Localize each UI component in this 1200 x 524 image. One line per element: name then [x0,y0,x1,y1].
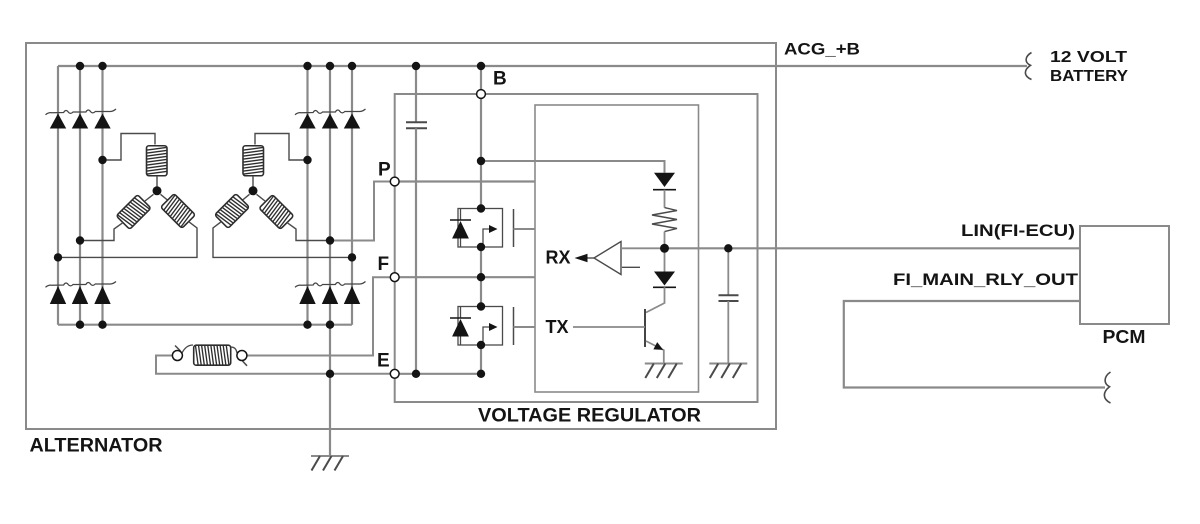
wire between Q1 and Q2 [480,247,482,307]
slip ring left [172,351,182,361]
transistor Q3 (TX driver) [573,309,665,363]
svg-text:ALTERNATOR: ALTERNATOR [30,436,163,457]
label RX [546,248,571,268]
diode D10 (bridge2 lower) [299,286,315,304]
diode D5 (bridge1 lower) [72,286,88,304]
brush tick right [243,361,248,366]
squiggle relay wire end [1104,372,1110,403]
terminal P [390,177,399,186]
transistor Q2 field MOSFET [450,307,535,346]
wire LIN to PCM [665,247,1081,249]
resistor R1 [652,208,677,232]
node wye2 neutral [249,186,258,195]
field coil exit arc [231,347,237,353]
node wye1 phase B junction [76,236,84,244]
svg-text:LIN(FI-ECU): LIN(FI-ECU) [961,221,1075,240]
diode D1 (bridge1 upper) [50,114,66,129]
ground Q3 emitter [645,364,683,379]
node E rail end [477,370,485,378]
wire U1 to RX arrow [588,257,595,259]
node B branch junction [477,157,485,165]
wire LIN node to D14 [664,248,666,271]
node capacitor to E line [412,370,420,378]
label LIN(FI-ECU) [961,221,1075,240]
wire capacitor C2 top leg [727,248,729,295]
label PCM [1103,327,1146,347]
wire rectifier bridge 2 phase columns [308,66,353,325]
stator coil L6 (wye2 left) [215,194,250,229]
label B [493,69,507,90]
label ALTERNATOR [30,436,163,457]
label 12 VOLT BATTERY [1050,49,1128,85]
diode D11 (bridge2 lower) [322,286,338,304]
label P [378,160,391,181]
rotor field coil [194,345,231,365]
diode D2 (bridge1 upper) [72,114,88,129]
wire E line inside regulator [395,373,481,375]
diode D12 (bridge2 lower) [344,286,360,304]
diode D14 (LIN clamp lower) [653,272,676,288]
wire field winding to F terminal [247,277,395,355]
node Q2 source [477,341,485,349]
avalanche cathode bar bridge1 lower [46,282,117,288]
regulator IC inner box [535,105,699,392]
svg-text:F: F [378,254,390,275]
terminal F [390,273,399,282]
node LIN / capacitor C2 junction [724,244,732,252]
stator coil L3 (wye1 right) [161,194,196,229]
stator coil L4 (wye2 top) [243,146,264,176]
avalanche cathode bar bridge2 upper [295,109,366,115]
stator coil L2 (wye1 left) [116,195,151,230]
svg-text:PCM: PCM [1103,327,1146,347]
avalanche cathode bar bridge2 lower [295,282,366,288]
capacitor C1 [406,122,427,128]
node LIN junction [660,244,669,253]
capacitor C2 [719,295,739,301]
label FI_MAIN_RLY_OUT [893,270,1079,289]
diode D8 (bridge2 upper) [322,114,338,129]
op-amp U1 RX buffer [594,242,621,275]
node wye2 phase A junction [303,156,311,164]
RX arrowhead [575,254,588,262]
node wye1 phase C junction [54,253,62,261]
brush tick left [175,346,181,352]
wire wye2 phase A tap [255,134,308,161]
transistor Q1 high-side MOSFET [450,209,535,248]
node top bus junction dots [76,62,485,70]
diode D6 (bridge1 lower) [94,286,110,304]
terminal E [390,369,399,378]
wire capacitor C1 bottom leg [415,128,417,373]
wire capacitor C1 top leg [415,66,417,122]
ground alternator case [311,456,349,471]
wire resistor to LIN node [664,232,666,249]
node F rail junction [477,273,485,281]
wire wye2 neutral to right coil [257,194,266,201]
wire wye2 top coil to neutral [252,176,254,187]
wire D14 to Q3 collector [646,287,665,312]
node wye1 neutral [153,186,162,195]
wire wye1 left coil to phase B [80,223,123,241]
diode D4 (bridge1 lower) [50,286,66,304]
alternator enclosure box [26,43,776,429]
wire U1 input from LIN node [621,247,665,249]
diode D7 (bridge2 upper) [299,114,315,129]
node wye2 phase C junction [348,253,356,261]
diode D9 (bridge2 upper) [344,114,360,129]
PCM box [1080,226,1169,324]
wire wye2 right coil to phase B [287,223,330,241]
svg-text:RX: RX [546,248,571,268]
node bottom bus junction dots [76,321,334,329]
node E-line / ground column junction [326,370,334,378]
wire wye2 neutral to left coil [242,194,250,200]
svg-text:ACG_+B: ACG_+B [784,40,860,59]
voltage regulator box [395,94,758,402]
stator coil L5 (wye2 right) [259,195,294,230]
wire P line inside regulator [395,180,535,182]
stator coil L1 (wye1 top) [147,146,168,176]
diode D13 (LIN clamp upper) [653,173,676,190]
label F [378,254,390,275]
wire D13 to resistor [664,190,666,208]
node wye2 phase B junction [326,236,334,244]
wire P sense tap [330,182,395,241]
wire B feed vertical upper [480,66,482,209]
svg-text:B: B [493,69,507,90]
svg-text:FI_MAIN_RLY_OUT: FI_MAIN_RLY_OUT [893,270,1079,289]
wire wye1 phase A tap [103,134,156,161]
svg-text:P: P [378,160,391,181]
wire F line inside regulator [395,276,535,278]
wire wye2 left coil to phase C [213,222,352,258]
wire ground column below bridge 2 [329,325,331,455]
wire wye1 neutral to right coil [161,194,169,200]
slip ring right [237,351,247,361]
svg-text:BATTERY: BATTERY [1050,68,1128,85]
wire wye1 right coil to phase C [58,222,197,258]
wire wye1 neutral to left coil [145,194,154,201]
wire ACG_+B top bus to battery [58,65,1027,67]
wire field winding left leg [156,356,395,374]
wire FI_MAIN_RLY_OUT [844,301,1105,388]
node wye1 phase A junction [98,156,106,164]
wire rectifier bridge 1 phase columns [58,66,103,325]
label TX [546,317,569,337]
node Q1 drain [477,204,485,212]
wire B branch into IC [481,161,665,173]
field coil entry arc [182,345,193,353]
wire capacitor C2 bottom leg [727,301,729,363]
terminal B [477,90,486,99]
ground capacitor C2 [709,364,747,379]
wire wye1 top coil to neutral [156,176,158,187]
squiggle battery wire end [1025,53,1031,80]
svg-text:TX: TX [546,317,569,337]
label VOLTAGE REGULATOR [478,406,701,427]
label E [377,351,390,372]
diode D3 (bridge1 upper) [94,114,110,129]
svg-text:12 VOLT: 12 VOLT [1050,49,1127,66]
node Q2 drain [477,302,485,310]
avalanche cathode bar bridge1 upper [46,109,117,115]
label ACG_+B [784,40,860,59]
svg-text:VOLTAGE REGULATOR: VOLTAGE REGULATOR [478,406,701,427]
node Q1 source [477,243,485,251]
wire U1 output stub [622,266,640,268]
wire rectifier negative bus [58,324,352,326]
svg-text:E: E [377,351,390,372]
wire Q2 source to E rail [480,345,482,374]
